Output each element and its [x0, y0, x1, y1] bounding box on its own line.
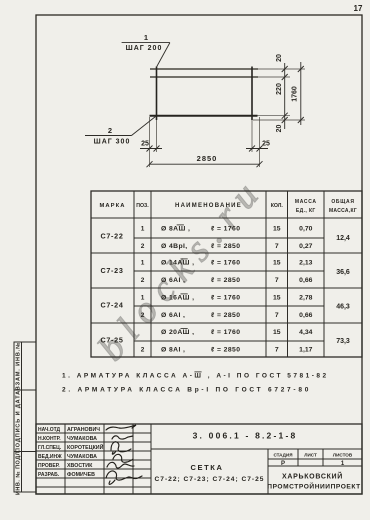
- svg-text:Р: Р: [281, 461, 285, 467]
- spec table grid: [91, 191, 362, 357]
- svg-text:220: 220: [276, 83, 283, 95]
- svg-text:Ø 4ВрI,: Ø 4ВрI,: [161, 243, 188, 250]
- svg-text:ЧУМАКОВА: ЧУМАКОВА: [67, 436, 97, 442]
- svg-text:ПРОМСТРОЙНИИПРОЕКТ: ПРОМСТРОЙНИИПРОЕКТ: [267, 482, 360, 491]
- svg-text:0,70: 0,70: [299, 226, 312, 233]
- wire pos1 left (l=1760): [156, 67, 158, 121]
- svg-text:КОЛ.: КОЛ.: [271, 203, 284, 209]
- svg-text:2,78: 2,78: [299, 295, 312, 302]
- dimension 1760: [298, 62, 304, 125]
- svg-text:1: 1: [141, 260, 145, 267]
- table header texts: [99, 199, 357, 214]
- left margin box инв.№ подл.: [14, 452, 36, 493]
- svg-text:2: 2: [108, 126, 112, 135]
- dimension 25 left: [140, 146, 162, 152]
- title block staff names: [67, 427, 104, 478]
- svg-text:ℓ = 2850: ℓ = 2850: [211, 243, 240, 250]
- svg-text:С7-23: С7-23: [100, 266, 123, 275]
- svg-text:20: 20: [276, 54, 283, 62]
- svg-text:1: 1: [144, 33, 148, 42]
- poz column entries: [141, 226, 145, 354]
- масса ед column entries: [299, 226, 312, 354]
- svg-text:2850: 2850: [197, 154, 218, 163]
- svg-text:ВЗАМ. ИНВ.№: ВЗАМ. ИНВ.№: [16, 342, 22, 390]
- svg-text:2: 2: [141, 312, 145, 319]
- svg-text:Ø 8АI ,: Ø 8АI ,: [161, 347, 185, 354]
- svg-text:73,3: 73,3: [336, 338, 350, 345]
- svg-text:С7-22; С7-23; С7-24; С7-25: С7-22; С7-23; С7-24; С7-25: [155, 476, 265, 483]
- svg-text:ℓ = 1760: ℓ = 1760: [211, 329, 240, 336]
- svg-text:1: 1: [141, 226, 145, 233]
- svg-text:7: 7: [275, 347, 279, 354]
- svg-text:2: 2: [141, 277, 145, 284]
- watermark blocks.ru: [90, 167, 273, 368]
- svg-text:ГЛ.СПЕЦ.: ГЛ.СПЕЦ.: [38, 445, 62, 451]
- svg-text:ИНВ. № ПОДЛ.: ИНВ. № ПОДЛ.: [16, 449, 22, 495]
- svg-text:Н.КОНТР.: Н.КОНТР.: [38, 436, 61, 442]
- leader 1 (шаг 200): [122, 43, 170, 67]
- dimension chain 20/220/20: [282, 63, 288, 129]
- svg-text:СТАДИЯ: СТАДИЯ: [273, 453, 292, 458]
- svg-text:0,27: 0,27: [299, 243, 312, 250]
- left margin box взам.инв.№: [14, 342, 36, 390]
- svg-text:7: 7: [275, 277, 279, 284]
- svg-text:1760: 1760: [292, 86, 299, 102]
- svg-text:ХАРЬКОВСКИЙ: ХАРЬКОВСКИЙ: [282, 472, 343, 481]
- svg-text:МАССА: МАССА: [295, 199, 317, 205]
- svg-text:7: 7: [275, 312, 279, 319]
- svg-text:КОРОТЕЦКИЙ: КОРОТЕЦКИЙ: [67, 443, 104, 451]
- svg-text:МАССА,КГ: МАССА,КГ: [329, 208, 357, 214]
- svg-text:0,66: 0,66: [299, 312, 312, 319]
- leader 2 (шаг 300): [85, 117, 156, 136]
- наименование entries: [161, 226, 240, 354]
- svg-text:ХВОСТИК: ХВОСТИК: [67, 463, 93, 469]
- title block staff labels: [38, 427, 62, 478]
- svg-text:1. АРМАТУРА КЛАССА А-Ш , А-I П: 1. АРМАТУРА КЛАССА А-Ш , А-I ПО ГОСТ 578…: [62, 373, 329, 380]
- кол column entries: [273, 226, 281, 354]
- svg-text:25: 25: [141, 141, 149, 148]
- svg-text:25: 25: [262, 141, 270, 148]
- svg-text:15: 15: [273, 329, 281, 336]
- svg-text:ОБЩАЯ: ОБЩАЯ: [331, 199, 354, 205]
- svg-text:2: 2: [141, 243, 145, 250]
- svg-text:46,3: 46,3: [336, 304, 350, 311]
- svg-text:3. 006.1 - 8.2-1-8: 3. 006.1 - 8.2-1-8: [193, 431, 298, 441]
- left margin box подпись и дата: [14, 390, 36, 452]
- общая масса merged entries: [336, 235, 350, 345]
- extension lines right side: [253, 69, 305, 120]
- svg-text:ПОЗ.: ПОЗ.: [136, 203, 149, 209]
- svg-text:РАЗРАБ.: РАЗРАБ.: [38, 472, 60, 478]
- marka column entries: [100, 232, 123, 345]
- svg-text:17: 17: [354, 4, 363, 13]
- svg-text:Ø 8АШ ,: Ø 8АШ ,: [161, 226, 190, 233]
- svg-text:20: 20: [276, 125, 283, 133]
- svg-text:0,66: 0,66: [299, 277, 312, 284]
- dimension 2850: [147, 161, 263, 167]
- svg-text:1,17: 1,17: [299, 347, 312, 354]
- svg-text:ℓ = 2850: ℓ = 2850: [211, 312, 240, 319]
- svg-text:4,34: 4,34: [299, 329, 312, 336]
- wire pos2 top first (l=2850): [150, 68, 258, 70]
- svg-text:ЕД., КГ: ЕД., КГ: [296, 208, 316, 214]
- svg-text:ℓ = 1760: ℓ = 1760: [211, 226, 240, 233]
- svg-text:ℓ = 1760: ℓ = 1760: [211, 295, 240, 302]
- svg-text:15: 15: [273, 260, 281, 267]
- svg-text:ПРОВЕР.: ПРОВЕР.: [38, 463, 60, 469]
- svg-text:ℓ = 1760: ℓ = 1760: [211, 260, 240, 267]
- wire pos1 right: [251, 67, 253, 121]
- svg-text:ФОМИЧЕВ: ФОМИЧЕВ: [67, 472, 95, 478]
- svg-text:Ø 6АI ,: Ø 6АI ,: [161, 277, 185, 284]
- svg-text:НАЧ.ОТД: НАЧ.ОТД: [38, 427, 61, 433]
- svg-text:2: 2: [141, 347, 145, 354]
- svg-text:ЛИСТОВ: ЛИСТОВ: [333, 453, 353, 458]
- svg-text:С7-22: С7-22: [100, 232, 123, 241]
- dimension 25 right: [246, 146, 268, 152]
- svg-text:ПОДПИСЬ И ДАТА: ПОДПИСЬ И ДАТА: [16, 390, 22, 452]
- svg-text:15: 15: [273, 295, 281, 302]
- svg-text:ШАГ 200: ШАГ 200: [126, 45, 163, 52]
- svg-text:ЧУМАКОВА: ЧУМАКОВА: [67, 454, 97, 460]
- svg-text:С7-24: С7-24: [100, 301, 123, 310]
- svg-text:ℓ = 2850: ℓ = 2850: [211, 277, 240, 284]
- svg-text:НАИМЕНОВАНИЕ: НАИМЕНОВАНИЕ: [175, 203, 242, 209]
- стадия лист листов header: [273, 453, 352, 458]
- svg-text:1: 1: [141, 295, 145, 302]
- wire pos2 bottom (thick): [150, 115, 258, 117]
- overbars on Ш roman III: [177, 225, 188, 329]
- wire pos2 top second: [150, 76, 258, 78]
- title block grid: [36, 424, 362, 494]
- svg-text:СЕТКА: СЕТКА: [191, 463, 224, 472]
- svg-text:Ø 20АШ ,: Ø 20АШ ,: [161, 329, 194, 336]
- svg-text:ℓ = 2850: ℓ = 2850: [211, 347, 240, 354]
- svg-text:36,6: 36,6: [336, 269, 350, 276]
- svg-text:Ø 16АШ ,: Ø 16АШ ,: [161, 295, 194, 302]
- svg-text:2. АРМАТУРА КЛАССА Вр-I ПО ГОС: 2. АРМАТУРА КЛАССА Вр-I ПО ГОСТ 6727-80: [62, 387, 311, 394]
- svg-text:Ø 14АШ ,: Ø 14АШ ,: [161, 260, 194, 267]
- svg-text:АГРАНОВИЧ: АГРАНОВИЧ: [67, 427, 100, 433]
- svg-text:7: 7: [275, 243, 279, 250]
- extension lines bottom: [150, 117, 260, 167]
- svg-text:ШАГ 300: ШАГ 300: [94, 139, 131, 146]
- svg-text:МАРКА: МАРКА: [99, 203, 125, 209]
- overbar on Ш in note: [194, 371, 201, 373]
- svg-text:ЛИСТ: ЛИСТ: [304, 453, 317, 458]
- svg-text:2,13: 2,13: [299, 260, 312, 267]
- svg-text:Ø 6АI ,: Ø 6АI ,: [161, 312, 185, 319]
- svg-text:С7-25: С7-25: [100, 336, 123, 345]
- signatures: [106, 425, 142, 484]
- svg-text:15: 15: [273, 226, 281, 233]
- svg-text:12,4: 12,4: [336, 235, 350, 242]
- svg-text:ВЕД.ИНЖ: ВЕД.ИНЖ: [38, 454, 62, 460]
